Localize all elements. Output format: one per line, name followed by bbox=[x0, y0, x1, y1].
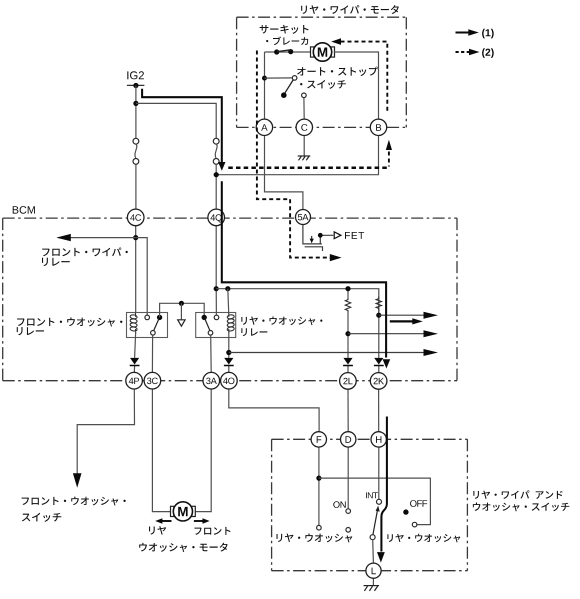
flow (1): below BCM into switch bbox=[381, 417, 387, 552]
wire: pivot down to L bbox=[372, 539, 375, 563]
circuit breaker contacts bbox=[274, 49, 279, 54]
rear washer relay coil bbox=[228, 313, 230, 317]
wire: to front wiper relay (left) and relay contact drop bbox=[58, 238, 147, 316]
wire: B down and left to 4Q line bbox=[216, 135, 378, 175]
label lbl_fwasher1: フロント・ウオッシャ・ bbox=[17, 317, 122, 326]
inline connector on 4Q wire bbox=[213, 138, 219, 164]
diode above 4P bbox=[130, 358, 139, 365]
wire: movable contact to 3C bbox=[151, 335, 153, 372]
wire: 4P to front washer switch arrow bbox=[77, 389, 134, 474]
arrow to front washer switch bbox=[73, 473, 82, 488]
flow (1) arrowhead toward 2K bbox=[383, 359, 391, 368]
connector A bbox=[256, 119, 272, 135]
front washer relay blade bbox=[154, 319, 159, 331]
label lbl_fwasher2: リレー bbox=[17, 327, 44, 335]
flow (1) arrowhead at dotted crossing bbox=[218, 162, 225, 171]
flow (1) arrowhead at L bbox=[377, 552, 385, 563]
rear washer relay box bbox=[196, 313, 236, 338]
wire: D down to ON contact bbox=[347, 447, 349, 508]
OFF stub contact bbox=[412, 522, 417, 527]
label lbl_rwasher2: リレー bbox=[241, 328, 267, 336]
diode above 2L bbox=[343, 358, 352, 365]
auto-stop switch blade bbox=[285, 80, 294, 93]
label lbl_circuit1: サーキット bbox=[260, 25, 309, 34]
node: R2 arrow branch bbox=[376, 313, 381, 318]
node: tie bar junction bbox=[179, 301, 184, 306]
connector F bbox=[311, 432, 326, 447]
label lbl_fwsw1: フロント・ウオッシャ・ bbox=[22, 497, 126, 506]
resistor R1 (2L branch) bbox=[347, 289, 349, 298]
node: IG2 tap bbox=[133, 83, 138, 88]
connector 4C bbox=[127, 209, 144, 226]
label lbl_rwsw1: リヤ・ワイパ アンド bbox=[473, 490, 562, 499]
wire: 5A down to FET drain bbox=[303, 225, 322, 244]
flow (2) arrowhead to FET gate path bbox=[330, 254, 342, 261]
legend flow (2) dashed arrow bbox=[456, 48, 494, 58]
rear wiper motor box (dash-dot border) bbox=[237, 16, 407, 18]
wire: H down to INT contact bbox=[378, 447, 380, 499]
rear wiper and washer switch box (dash-dot border) bbox=[272, 438, 468, 440]
label lbl_fwiper1: フロント・ワイパ・ bbox=[42, 247, 128, 256]
wire: branch down to rear washer relay coil bbox=[227, 289, 230, 313]
wire: coil to diode to 4P bbox=[134, 331, 135, 372]
label lbl_front: フロント bbox=[194, 527, 230, 535]
label FET bbox=[345, 232, 364, 239]
connector 2K bbox=[370, 373, 387, 390]
FET gate bar bbox=[305, 247, 323, 251]
OFF position dot bbox=[403, 509, 408, 514]
arrow to front wiper relay bbox=[56, 234, 71, 241]
motor M rear wiper bbox=[311, 47, 314, 57]
wire: fixed contact up to feed line bbox=[215, 289, 217, 315]
connector 3C bbox=[144, 372, 161, 389]
ground below C bbox=[298, 155, 311, 157]
connector D bbox=[341, 432, 356, 447]
wire: A riser bbox=[264, 52, 266, 119]
flow (2): dashed arrow into motor M bbox=[331, 38, 341, 45]
node: feed junction bbox=[214, 286, 219, 291]
label lbl_rwash_l: リヤ・ウオッシャ bbox=[276, 534, 352, 543]
wire: 3A to washer motor right bbox=[195, 389, 211, 512]
signal arrow from R1 node bbox=[348, 333, 424, 335]
connector H bbox=[371, 432, 386, 447]
wire: L to ground bbox=[372, 578, 374, 585]
connector 4Q bbox=[208, 209, 225, 226]
front washer relay movable contact bbox=[151, 331, 156, 336]
wire: OFF position loop bbox=[319, 478, 431, 524]
connector 4P bbox=[126, 372, 143, 389]
wire: motor to B bbox=[334, 52, 379, 119]
rear washer stub contact (F side) bbox=[317, 525, 322, 530]
wire: feed line to resistors bbox=[216, 289, 379, 316]
diode above 4O bbox=[224, 358, 233, 365]
label lbl_fwsw2: スイッチ bbox=[22, 513, 61, 522]
connector 3A bbox=[203, 372, 220, 389]
FET node dot bbox=[318, 233, 323, 238]
wire: 4Q down to feed junction bbox=[215, 226, 217, 289]
label lbl_autostop2: ・スイッチ bbox=[300, 80, 346, 89]
connector B bbox=[370, 119, 386, 135]
ground below L bbox=[364, 585, 380, 587]
flow (1) short thick arrow bbox=[390, 320, 414, 322]
FET output triangle bbox=[334, 232, 341, 239]
INT blade with arrow bbox=[373, 511, 378, 535]
label lbl_rwash_r: リヤ・ウオッシャ bbox=[387, 534, 460, 543]
wire: branch right to 4Q drop bbox=[136, 103, 216, 138]
wire: 3C to washer motor left bbox=[152, 389, 170, 512]
front direction arrow bbox=[194, 520, 204, 522]
flow (1): continues down to resistor feed bbox=[222, 181, 386, 357]
front washer relay common bbox=[157, 315, 162, 320]
rear washer relay movable contact bbox=[208, 331, 213, 336]
node: R1 bottom arrow branch bbox=[345, 331, 350, 336]
node: F branch bbox=[316, 476, 321, 481]
inline connector on 4C wire bbox=[133, 138, 139, 164]
auto-stop fixed contact bbox=[302, 93, 307, 98]
connector C bbox=[296, 119, 312, 135]
wire: contact to C bbox=[303, 98, 305, 120]
wire: F down to washer contact bbox=[318, 447, 320, 525]
label lbl_wmotor: ウオッシャ・モータ bbox=[139, 543, 227, 552]
ON lower contact bbox=[346, 528, 351, 533]
INT contact bbox=[377, 499, 382, 504]
label lbl_rwsw2: ウオッシャ・スイッチ bbox=[473, 502, 569, 511]
rear washer relay fixed contact bbox=[214, 315, 219, 320]
connector 5A bbox=[296, 210, 311, 225]
label INT bbox=[366, 492, 378, 498]
wire: into 4Q bbox=[215, 164, 217, 209]
wire: auto-stop common bbox=[265, 77, 293, 79]
wire: 4C down to front washer relay coil bbox=[135, 226, 137, 313]
washer motor M bbox=[171, 506, 174, 516]
label title_motor: リヤ・ワイパ・モータ bbox=[301, 5, 399, 14]
front washer relay box bbox=[127, 313, 168, 338]
diode above 2K bbox=[374, 358, 383, 365]
INT pivot contact bbox=[370, 535, 375, 540]
wire: 2K down to H bbox=[378, 389, 380, 431]
node: front wiper relay branch bbox=[133, 235, 138, 240]
signal arrow from washer motor branch bbox=[229, 352, 424, 354]
BCM box (dash-dot border) bbox=[3, 217, 457, 219]
label ON bbox=[333, 501, 345, 508]
wire: 2L down to D bbox=[347, 389, 349, 431]
wire: IG2 feed bar bbox=[127, 84, 144, 86]
front washer relay fixed contact bbox=[145, 315, 150, 320]
label lbl_circuit2: ・ブレーカ bbox=[266, 36, 308, 45]
wire: stem to floating ground triangle bbox=[180, 303, 182, 319]
wire: IG2 down to first inline connector bbox=[135, 86, 137, 139]
flow (2): dashed drop from breaker to FET gate bbox=[257, 51, 331, 258]
flow (1): IG2 thick line down past 4Q bbox=[142, 89, 222, 163]
rear washer relay blade bbox=[205, 319, 210, 331]
label OFF bbox=[410, 500, 427, 507]
wire: movable contact to 3A bbox=[210, 335, 213, 372]
legend flow (1) solid arrow bbox=[456, 29, 494, 39]
node: B-line joins 4Q wire bbox=[214, 172, 219, 177]
label lbl_rear: リヤ bbox=[149, 526, 166, 535]
FET substrate arrow bbox=[311, 236, 313, 240]
connector L bbox=[366, 563, 381, 578]
node: washer motor line branch bbox=[226, 350, 231, 355]
FET channel bar / source bbox=[320, 235, 333, 244]
node: rear washer coil branch bbox=[225, 286, 230, 291]
label lbl_fwiper2: リレー bbox=[42, 258, 70, 266]
resistor R2 (2K branch) bbox=[376, 297, 381, 311]
rear washer relay common bbox=[202, 315, 207, 320]
flow (2): dashed up-arrow below B bbox=[386, 140, 392, 150]
node: auto-stop tap bbox=[262, 76, 267, 81]
label lbl_autostop1: オート・ストップ bbox=[297, 67, 378, 76]
ON upper contact bbox=[346, 509, 351, 514]
node: R1 top bbox=[345, 286, 350, 291]
signal arrow from R2 node bbox=[379, 314, 424, 316]
wire: coil to diode to 4O bbox=[228, 331, 230, 372]
wire: 4O over to switch F bbox=[229, 389, 319, 432]
label IG2 bbox=[127, 71, 144, 79]
flow (2): thick dotted cross line bbox=[228, 167, 389, 170]
wire: C to ground bbox=[303, 136, 305, 156]
label lbl_rwasher1: リヤ・ウオッシャ・ bbox=[241, 317, 322, 326]
node: IG2 branch junction bbox=[133, 101, 138, 106]
auto-stop switch pivot bbox=[292, 76, 297, 81]
front washer relay coil bbox=[135, 313, 137, 317]
label BCM bbox=[13, 206, 35, 214]
rear direction arrow bbox=[162, 520, 172, 522]
wire: into 4C bbox=[135, 164, 137, 209]
floating ground triangle bbox=[178, 320, 185, 326]
wire: A down, right, into 5A bbox=[265, 136, 303, 210]
connector 4O bbox=[221, 372, 238, 389]
connector 2L bbox=[340, 373, 357, 390]
wire: relay commons tie bar bbox=[160, 303, 205, 317]
wire: breaker feed from A riser to motor bbox=[265, 51, 312, 53]
